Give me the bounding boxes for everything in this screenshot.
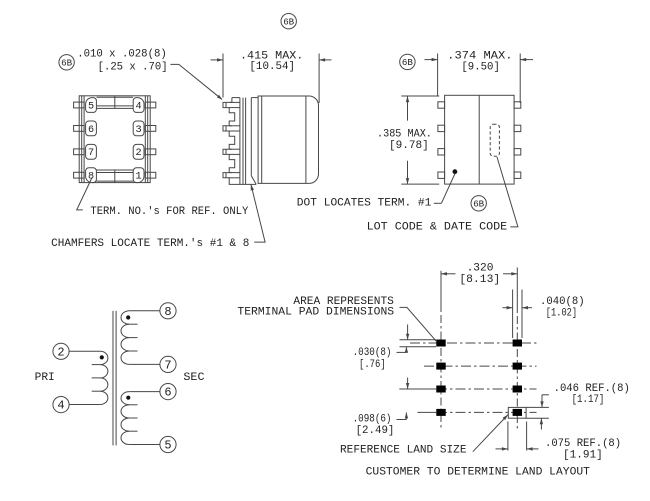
svg-text:7: 7 bbox=[164, 359, 171, 373]
svg-text:5: 5 bbox=[88, 101, 94, 112]
svg-text:SEC: SEC bbox=[183, 372, 205, 384]
svg-text:.030(8): .030(8) bbox=[353, 347, 392, 359]
svg-text:6B: 6B bbox=[402, 57, 413, 68]
svg-text:3: 3 bbox=[136, 125, 142, 136]
svg-text:TERM. NO.'s FOR REF. ONLY: TERM. NO.'s FOR REF. ONLY bbox=[90, 206, 248, 218]
svg-text:2: 2 bbox=[136, 148, 142, 159]
svg-text:8: 8 bbox=[164, 305, 171, 319]
svg-text:CUSTOMER TO DETERMINE LAND LAY: CUSTOMER TO DETERMINE LAND LAYOUT bbox=[366, 466, 591, 478]
svg-text:8: 8 bbox=[88, 172, 94, 183]
svg-text:1: 1 bbox=[136, 172, 142, 183]
svg-text:.374 MAX.: .374 MAX. bbox=[447, 50, 512, 62]
svg-text:5: 5 bbox=[164, 439, 171, 453]
svg-text:TERMINAL PAD DIMENSIONS: TERMINAL PAD DIMENSIONS bbox=[237, 306, 394, 318]
svg-text:[8.13]: [8.13] bbox=[459, 274, 500, 286]
svg-text:[2.49]: [2.49] bbox=[356, 425, 395, 437]
svg-text:6: 6 bbox=[164, 386, 171, 400]
svg-text:.046 REF.(8): .046 REF.(8) bbox=[554, 383, 630, 395]
svg-text:7: 7 bbox=[88, 148, 94, 159]
svg-text:6B: 6B bbox=[473, 199, 484, 210]
svg-text:[9.50]: [9.50] bbox=[461, 62, 500, 74]
svg-text:DOT LOCATES TERM. #1: DOT LOCATES TERM. #1 bbox=[297, 197, 432, 209]
svg-text:6: 6 bbox=[88, 125, 94, 136]
svg-text:6B: 6B bbox=[283, 16, 294, 27]
svg-text:PRI: PRI bbox=[35, 372, 55, 384]
svg-text:[9.78]: [9.78] bbox=[389, 140, 429, 152]
svg-text:.320: .320 bbox=[467, 262, 494, 274]
svg-text:LOT CODE & DATE CODE: LOT CODE & DATE CODE bbox=[367, 222, 508, 234]
svg-text:.010 x .028(8): .010 x .028(8) bbox=[77, 49, 167, 61]
svg-text:.385 MAX.: .385 MAX. bbox=[377, 128, 432, 140]
svg-text:[.76]: [.76] bbox=[359, 359, 386, 371]
svg-text:.098(6): .098(6) bbox=[353, 414, 392, 426]
svg-text:2: 2 bbox=[57, 345, 64, 359]
svg-text:[10.54]: [10.54] bbox=[249, 61, 295, 73]
svg-text:4: 4 bbox=[136, 101, 142, 112]
svg-text:[1.17]: [1.17] bbox=[572, 394, 605, 406]
svg-text:6B: 6B bbox=[61, 58, 72, 69]
svg-text:[1.91]: [1.91] bbox=[563, 449, 603, 461]
svg-text:4: 4 bbox=[57, 399, 64, 413]
svg-text:REFERENCE LAND SIZE: REFERENCE LAND SIZE bbox=[340, 444, 467, 456]
svg-text:CHAMFERS LOCATE TERM.'s #1 & 8: CHAMFERS LOCATE TERM.'s #1 & 8 bbox=[51, 238, 249, 250]
svg-text:[1.02]: [1.02] bbox=[546, 307, 577, 319]
svg-text:[.25 x .70]: [.25 x .70] bbox=[98, 61, 168, 73]
svg-text:.040(8): .040(8) bbox=[540, 296, 585, 308]
